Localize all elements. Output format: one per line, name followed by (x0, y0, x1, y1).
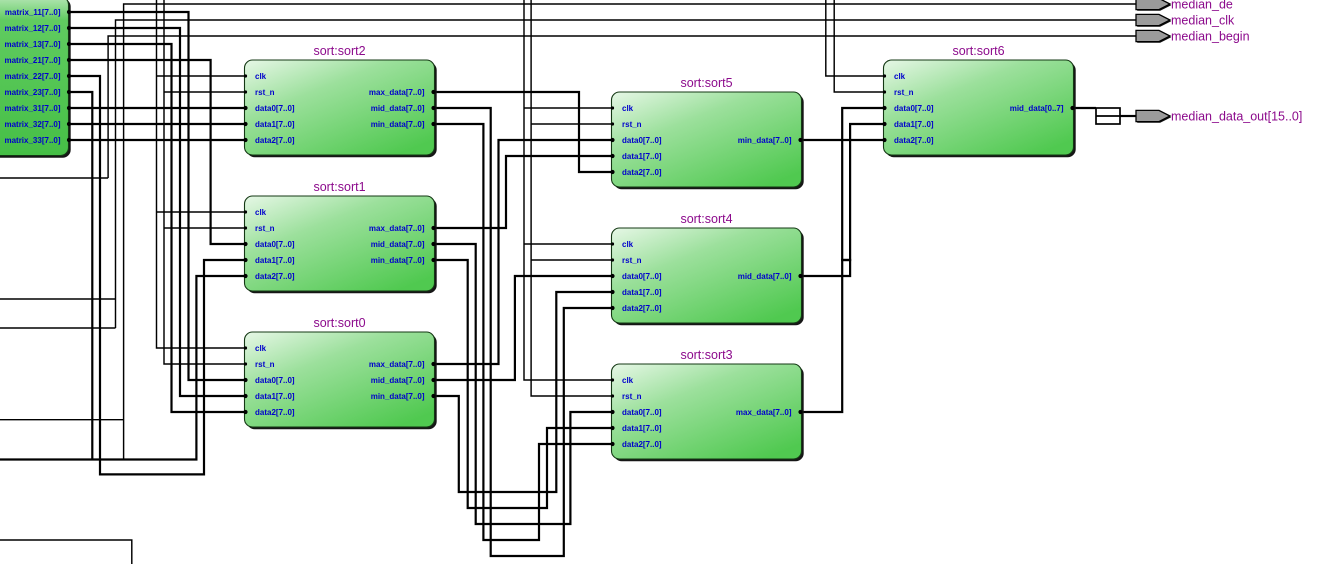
svg-text:mid_data[7..0]: mid_data[7..0] (371, 240, 425, 249)
svg-text:sort:sort1: sort:sort1 (313, 180, 365, 194)
svg-text:median_begin: median_begin (1171, 30, 1250, 44)
svg-text:sort:sort3: sort:sort3 (680, 348, 732, 362)
svg-text:max_data[7..0]: max_data[7..0] (369, 360, 425, 369)
wire sort0.mid_data to sort4.data0 (435, 276, 612, 380)
svg-text:rst_n: rst_n (622, 392, 642, 401)
wire sort0.max_data to sort5.data0 (435, 140, 612, 364)
svg-text:mid_data[7..0]: mid_data[7..0] (371, 104, 425, 113)
svg-text:rst_n: rst_n (894, 88, 914, 97)
wire bus merger to median_data_out pin (1120, 115, 1136, 117)
svg-text:min_data[7..0]: min_data[7..0] (371, 256, 425, 265)
svg-text:median_de: median_de (1171, 0, 1233, 12)
module block sort:sort4 (610, 212, 803, 325)
svg-text:data2[7..0]: data2[7..0] (894, 136, 934, 145)
wire matrix_33 to sort2.data2 (68, 139, 245, 141)
wire sort1.mid_data to sort3.data0 (435, 244, 612, 524)
svg-text:data0[7..0]: data0[7..0] (622, 136, 662, 145)
wire median_begin net (0, 36, 1136, 178)
svg-text:data1[7..0]: data1[7..0] (894, 120, 934, 129)
svg-text:min_data[7..0]: min_data[7..0] (738, 136, 792, 145)
wire matrix_31 to sort2.data0 (68, 107, 245, 109)
wire sort1.min_data to sort3.data1 (435, 260, 612, 508)
svg-text:data1[7..0]: data1[7..0] (622, 288, 662, 297)
wire matrix_12 to sort0.data1 (68, 28, 245, 396)
output pin median_begin (1136, 30, 1250, 44)
wire rst_n trunk to sort5 sort4 sort3 (531, 0, 612, 396)
wire matrix_11 to sort0.data0 (68, 12, 245, 380)
svg-text:data2[7..0]: data2[7..0] (255, 408, 295, 417)
svg-text:data2[7..0]: data2[7..0] (622, 304, 662, 313)
svg-text:min_data[7..0]: min_data[7..0] (371, 392, 425, 401)
svg-text:data1[7..0]: data1[7..0] (255, 392, 295, 401)
svg-text:data1[7..0]: data1[7..0] (255, 256, 295, 265)
svg-text:data2[7..0]: data2[7..0] (255, 136, 295, 145)
wire sort6.mid_data to bus merger (1074, 107, 1096, 109)
output pin median_de (1136, 0, 1233, 12)
module block sort:sort2 (243, 44, 436, 157)
output pin median_data_out[15..0] (1136, 110, 1302, 124)
wire clk trunk to sort2 sort1 sort0 (157, 0, 246, 348)
svg-text:clk: clk (622, 376, 634, 385)
svg-text:sort:sort6: sort:sort6 (952, 44, 1004, 58)
svg-text:mid_data[7..0]: mid_data[7..0] (738, 272, 792, 281)
svg-text:sort:sort4: sort:sort4 (680, 212, 732, 226)
svg-text:matrix_12[7..0]: matrix_12[7..0] (4, 24, 60, 33)
svg-text:mid_data[7..0]: mid_data[7..0] (371, 376, 425, 385)
wire sort2.max_data to sort5.data2 (435, 92, 612, 172)
svg-text:matrix_11[7..0]: matrix_11[7..0] (5, 8, 61, 17)
svg-text:max_data[7..0]: max_data[7..0] (736, 408, 792, 417)
wire clk to sort6 (826, 0, 884, 76)
svg-text:max_data[7..0]: max_data[7..0] (369, 224, 425, 233)
wire matrix_23 to sort1.data2 (0, 92, 245, 460)
wire matrix_13 to sort0.data2 (68, 44, 245, 412)
svg-text:mid_data[0..7]: mid_data[0..7] (1010, 104, 1064, 113)
svg-text:clk: clk (255, 208, 267, 217)
bus merger symbol for median_data_out (1096, 108, 1120, 124)
svg-text:median_data_out[15..0]: median_data_out[15..0] (1171, 110, 1302, 124)
svg-text:data0[7..0]: data0[7..0] (894, 104, 934, 113)
svg-text:median_clk: median_clk (1171, 14, 1235, 28)
svg-text:clk: clk (894, 72, 906, 81)
wire rst_n trunk to sort2 sort1 sort0 (164, 0, 245, 364)
svg-text:clk: clk (622, 104, 634, 113)
svg-text:rst_n: rst_n (622, 256, 642, 265)
wire sort2.min_data to sort3.data2 (435, 124, 612, 540)
wire median_clk net (0, 20, 1136, 328)
wire matrix_32 to sort2.data1 (68, 123, 245, 125)
svg-text:data0[7..0]: data0[7..0] (255, 104, 295, 113)
svg-text:data2[7..0]: data2[7..0] (622, 440, 662, 449)
svg-text:sort:sort0: sort:sort0 (313, 316, 365, 330)
svg-text:matrix_22[7..0]: matrix_22[7..0] (4, 72, 60, 81)
svg-text:clk: clk (622, 240, 634, 249)
svg-text:data2[7..0]: data2[7..0] (622, 168, 662, 177)
output pin median_clk (1136, 14, 1235, 28)
svg-text:rst_n: rst_n (622, 120, 642, 129)
svg-text:matrix_13[7..0]: matrix_13[7..0] (4, 40, 60, 49)
svg-text:rst_n: rst_n (255, 224, 275, 233)
svg-text:max_data[7..0]: max_data[7..0] (369, 88, 425, 97)
wire sort4.mid_data to sort6.data0 (802, 108, 884, 276)
svg-text:clk: clk (255, 344, 267, 353)
svg-text:matrix_23[7..0]: matrix_23[7..0] (4, 88, 60, 97)
wire matrix_22 to sort1.data1 (68, 76, 245, 474)
svg-text:matrix_32[7..0]: matrix_32[7..0] (4, 120, 60, 129)
module block sort:sort1 (243, 180, 436, 293)
svg-text:data1[7..0]: data1[7..0] (622, 424, 662, 433)
wire median_de net (0, 4, 1136, 460)
svg-text:matrix_21[7..0]: matrix_21[7..0] (4, 56, 60, 65)
svg-text:data0[7..0]: data0[7..0] (255, 376, 295, 385)
svg-text:data0[7..0]: data0[7..0] (622, 408, 662, 417)
wire rst_n to sort6 (834, 0, 884, 92)
svg-text:rst_n: rst_n (255, 360, 275, 369)
input pin block matrix (0, 0, 71, 158)
svg-text:sort:sort5: sort:sort5 (680, 76, 732, 90)
svg-text:min_data[7..0]: min_data[7..0] (371, 120, 425, 129)
wire sort1.max_data to sort5.data1 (435, 156, 612, 228)
svg-text:matrix_33[7..0]: matrix_33[7..0] (4, 136, 60, 145)
module block sort:sort3 (610, 348, 803, 461)
svg-text:clk: clk (255, 72, 267, 81)
svg-text:rst_n: rst_n (255, 88, 275, 97)
wire sort2.mid_data to sort4.data2 (435, 108, 612, 556)
svg-text:sort:sort2: sort:sort2 (313, 44, 365, 58)
module block sort:sort6 (882, 44, 1075, 157)
wire matrix_21 to sort1.data0 (68, 60, 245, 244)
module block sort:sort5 (610, 76, 803, 189)
module block sort:sort0 (243, 316, 436, 429)
svg-text:matrix_31[7..0]: matrix_31[7..0] (4, 104, 60, 113)
wire clk trunk to sort5 sort4 sort3 (524, 0, 612, 380)
svg-text:data0[7..0]: data0[7..0] (622, 272, 662, 281)
svg-text:data0[7..0]: data0[7..0] (255, 240, 295, 249)
wire sort3.max_data to sort6.data1 (802, 124, 884, 412)
svg-text:data2[7..0]: data2[7..0] (255, 272, 295, 281)
wire sort5.min_data to sort6.data2 (802, 139, 884, 141)
wire lower left net (0, 540, 132, 564)
wire sort0.min_data to sort4.data1 (435, 292, 612, 492)
svg-text:data1[7..0]: data1[7..0] (255, 120, 295, 129)
svg-text:data1[7..0]: data1[7..0] (622, 152, 662, 161)
